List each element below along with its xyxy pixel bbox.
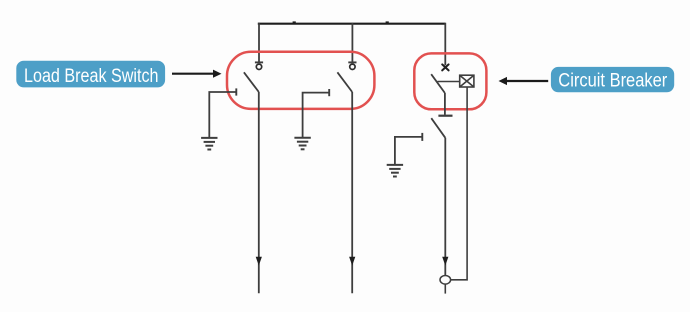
feeder arrowhead F2 — [349, 257, 355, 266]
feeder arrowhead F3 — [442, 257, 448, 266]
wire: stub below CT1 — [444, 284, 446, 294]
annotation label: Load Break Switch — [16, 61, 165, 88]
earthing switch E3: arm wire — [395, 137, 422, 165]
disconnect switch S3: blade — [431, 118, 445, 138]
feeder arrowhead F1 — [256, 257, 262, 266]
load break switch S2: fixed contact tick — [348, 61, 356, 63]
load break switch S2: blade — [337, 72, 352, 92]
wire: S1 feeder vertical — [258, 92, 260, 293]
ground G3 — [387, 165, 403, 177]
wire: blade to trip unit — [438, 81, 460, 83]
bus bar B1 (top horizontal wire) — [258, 23, 446, 25]
circuit breaker CB1: bottom terminal bar — [438, 115, 452, 117]
arrow: label to circuit breaker — [499, 77, 549, 85]
wire: CB1 blade to bottom terminal — [444, 93, 446, 115]
earthing switch E2: contact tick — [328, 89, 330, 96]
earthing switch E1: contact tick — [235, 88, 237, 95]
svg-text:Load Break Switch: Load Break Switch — [24, 66, 159, 87]
ground G1 — [201, 138, 217, 150]
earthing switch E3: contact tick — [421, 133, 423, 141]
junction nub on bus (left) — [293, 21, 296, 24]
wire: bus drop to circuit breaker — [444, 23, 446, 65]
circuit breaker CB1: blade — [431, 74, 445, 93]
wire: bus drop to switch S2 — [351, 23, 353, 62]
load break switch S1: blade — [244, 72, 259, 92]
trip unit TU1 (box with cross) — [460, 75, 474, 87]
current transformer CT1 — [440, 276, 451, 285]
junction nub on bus (right) — [386, 21, 389, 24]
earthing switch E2: arm wire — [303, 93, 330, 138]
circuit breaker CB1: fixed contact cross — [442, 64, 448, 70]
load break switch S1: fixed contact tick — [255, 61, 263, 63]
earthing switch E1: arm wire — [209, 92, 236, 138]
wire: S3 feeder vertical — [444, 138, 446, 276]
highlight outline around circuit breaker — [414, 53, 486, 109]
wire: bus drop to switch S1 — [258, 23, 260, 62]
arrow: label to load break switch — [172, 70, 222, 78]
wire: trip unit down to CT loop — [451, 87, 468, 280]
load break switch S1: terminal circle — [256, 64, 261, 69]
svg-text:Circuit Breaker: Circuit Breaker — [558, 71, 668, 92]
load break switch S2: terminal circle — [350, 64, 355, 69]
ground G2 — [294, 138, 310, 150]
highlight outline around load break switches — [227, 52, 374, 109]
wire: S2 feeder vertical — [351, 92, 353, 293]
annotation label: Circuit Breaker — [551, 67, 674, 92]
